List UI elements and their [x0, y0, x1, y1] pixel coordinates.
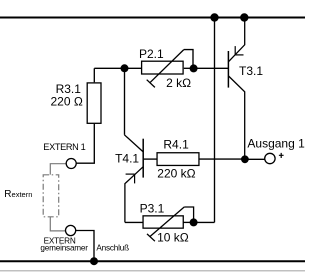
svg-text:Anschluß: Anschluß [96, 243, 129, 252]
svg-text:2 kΩ: 2 kΩ [166, 76, 191, 90]
svg-text:Ausgang 1: Ausgang 1 [247, 137, 305, 151]
svg-text:R4.1: R4.1 [163, 138, 189, 152]
svg-text:P2.1: P2.1 [139, 47, 164, 61]
svg-text:10 kΩ: 10 kΩ [157, 231, 189, 245]
svg-text:Rextern: Rextern [4, 189, 32, 200]
svg-text:T3.1: T3.1 [239, 64, 263, 78]
svg-text:220 Ω: 220 Ω [51, 95, 83, 109]
svg-text:EXTERN 1: EXTERN 1 [43, 142, 85, 152]
svg-text:gemeinsamer: gemeinsamer [40, 243, 88, 252]
svg-text:P3.1: P3.1 [140, 201, 165, 215]
svg-text:220 kΩ: 220 kΩ [157, 167, 195, 181]
svg-text:T4.1: T4.1 [115, 151, 139, 165]
